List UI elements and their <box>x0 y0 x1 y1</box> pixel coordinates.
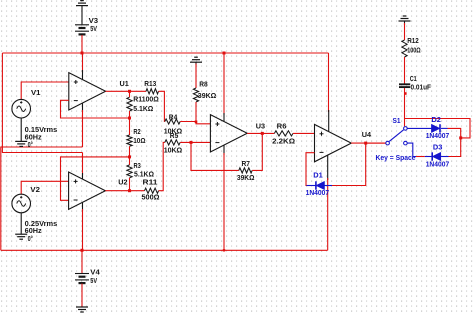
switch S1 <box>386 127 407 145</box>
svg-text:R4: R4 <box>169 112 178 121</box>
ground <box>76 307 88 312</box>
svg-text:R1100Ω: R1100Ω <box>133 94 159 103</box>
wire U1 output <box>106 90 146 92</box>
wire <box>81 35 83 53</box>
svg-text:0°: 0° <box>28 140 33 149</box>
node <box>404 92 407 95</box>
wire C1 to S1 throw1 <box>404 88 406 126</box>
svg-text:V2: V2 <box>30 185 40 194</box>
node <box>223 52 226 55</box>
svg-text:5V: 5V <box>90 276 97 285</box>
wire U4 V- pin <box>327 155 329 180</box>
svg-text:5V: 5V <box>90 24 97 33</box>
svg-text:R2: R2 <box>133 127 140 136</box>
op-amp U1 <box>69 73 106 110</box>
svg-text:R6: R6 <box>277 121 287 130</box>
wire <box>307 185 316 187</box>
svg-text:2.2KΩ: 2.2KΩ <box>272 136 295 145</box>
wire -5V bottom rail <box>1 249 328 251</box>
wire S1 throw2 to D3 <box>408 143 419 156</box>
wire <box>425 156 432 158</box>
ground <box>15 141 27 146</box>
svg-text:10KΩ: 10KΩ <box>164 127 183 136</box>
svg-text:D2: D2 <box>431 115 441 124</box>
ac source V2 <box>12 194 31 213</box>
wire U4 V+ pin <box>328 53 330 112</box>
svg-text:1N4007: 1N4007 <box>426 131 450 140</box>
op-amp U2 <box>69 172 106 209</box>
svg-text:500Ω: 500Ω <box>142 193 160 202</box>
svg-text:V1: V1 <box>31 88 41 97</box>
node U4 out <box>364 142 367 145</box>
ac source V1 <box>12 99 31 118</box>
svg-text:39KΩ: 39KΩ <box>198 91 217 100</box>
svg-text:U4: U4 <box>362 130 371 139</box>
battery V3 <box>75 25 89 35</box>
capacitor C1 <box>399 84 410 87</box>
wire U3 V+ pin <box>223 53 225 115</box>
wire R4 to U3+ <box>180 122 210 124</box>
wire <box>129 146 131 157</box>
svg-text:S1: S1 <box>393 116 401 125</box>
wire U4- drop <box>306 153 315 186</box>
wire D2 to node <box>448 128 461 138</box>
node <box>223 249 225 251</box>
ground <box>15 234 27 239</box>
wire U2 output <box>105 190 144 192</box>
node V3-rail junction <box>81 52 84 55</box>
svg-text:100Ω: 100Ω <box>407 45 421 54</box>
wire U4 output <box>351 142 386 144</box>
wire <box>20 213 22 234</box>
wire <box>195 64 197 89</box>
wire <box>404 57 406 84</box>
wire U1 V- pin <box>82 103 84 112</box>
svg-text:39KΩ: 39KΩ <box>237 173 255 182</box>
resistor R8 <box>193 88 198 102</box>
resistor R5 <box>165 140 180 145</box>
resistor R11 <box>145 188 159 193</box>
resistor R12 <box>402 40 407 57</box>
node D2-D3 junction <box>459 136 462 139</box>
wire V2 to U2+ <box>21 181 68 194</box>
battery V4 <box>75 274 89 284</box>
wire U2 feedback <box>61 157 130 200</box>
svg-text:U1: U1 <box>120 79 129 88</box>
svg-text:R7: R7 <box>242 159 251 168</box>
wire U1 V+ pin <box>82 53 84 73</box>
wire <box>404 23 406 40</box>
ground <box>399 16 411 21</box>
node U3 minus <box>190 141 193 144</box>
wire <box>441 127 448 129</box>
svg-text:U2: U2 <box>118 177 127 186</box>
wire +5V left rail <box>2 53 82 153</box>
diode D1 1N4007 <box>316 181 325 189</box>
resistor R4 <box>165 119 180 124</box>
wire U4 out to S1 <box>366 142 386 144</box>
wire +5V top rail <box>2 52 328 54</box>
node <box>128 117 131 120</box>
wire <box>195 102 197 122</box>
svg-text:R13: R13 <box>144 79 156 88</box>
wire R11 to R5 <box>159 142 165 190</box>
svg-text:10KΩ: 10KΩ <box>164 146 183 155</box>
node <box>195 121 198 124</box>
wire <box>129 111 131 118</box>
svg-text:0.01uF: 0.01uF <box>411 82 432 91</box>
node U1 out <box>128 90 131 93</box>
svg-text:D1: D1 <box>313 170 323 179</box>
wire R13 to R4 <box>159 91 165 121</box>
wire R7 to U3 out <box>252 133 262 170</box>
wire D3 to node <box>449 138 461 157</box>
diode D2 1N4007 <box>431 124 440 132</box>
resistor R13 <box>146 89 159 94</box>
ground <box>190 57 202 62</box>
wire <box>129 91 131 97</box>
diode D3 1N4007 <box>432 152 441 160</box>
wire <box>81 250 83 273</box>
wire C1 node to right <box>405 119 471 138</box>
wire U2 V+ pin <box>82 153 84 176</box>
wire <box>20 118 22 141</box>
svg-text:R11: R11 <box>143 178 158 187</box>
op-amp U3 <box>210 115 247 152</box>
svg-text:Key = Space: Key = Space <box>376 153 416 162</box>
svg-text:0°: 0° <box>28 234 33 243</box>
wire U1 feedback <box>61 100 130 118</box>
node <box>128 189 131 192</box>
wire R5 to U3- <box>180 141 210 143</box>
wire V1 to U1+ <box>21 82 69 99</box>
wire U2 V- pin <box>82 203 84 212</box>
resistor R6 <box>274 131 293 136</box>
wire <box>129 118 131 135</box>
svg-text:1N4007: 1N4007 <box>426 160 450 169</box>
ground <box>76 1 88 6</box>
wire -5V left rail <box>1 147 83 250</box>
node <box>128 155 131 158</box>
svg-text:R12: R12 <box>407 36 419 45</box>
wire R6 to U4+ <box>293 132 315 134</box>
wire <box>129 178 131 191</box>
svg-text:1N4007: 1N4007 <box>306 188 330 197</box>
svg-text:U3: U3 <box>256 121 265 130</box>
svg-text:R8: R8 <box>199 79 208 88</box>
wire <box>129 157 131 165</box>
wire U3 V- pin <box>223 145 225 155</box>
wire U3- to R7 <box>191 142 239 170</box>
resistor R2 <box>127 135 132 146</box>
resistor R7 <box>239 168 252 173</box>
node U3 out <box>261 132 264 135</box>
resistor R3 <box>127 165 132 178</box>
wire U3 output <box>247 132 274 134</box>
resistor R1 5.1K <box>127 97 132 111</box>
wire D1 to U4 out <box>332 143 366 185</box>
wire <box>416 156 425 158</box>
svg-text:5.1KΩ: 5.1KΩ <box>133 104 153 113</box>
op-amp U4 <box>315 124 352 161</box>
svg-text:10Ω: 10Ω <box>133 136 146 145</box>
wire <box>81 284 83 308</box>
wire <box>408 127 432 129</box>
wire <box>325 185 333 187</box>
svg-text:D3: D3 <box>433 143 443 152</box>
wire <box>441 156 449 158</box>
node V4-rail junction <box>81 249 84 252</box>
